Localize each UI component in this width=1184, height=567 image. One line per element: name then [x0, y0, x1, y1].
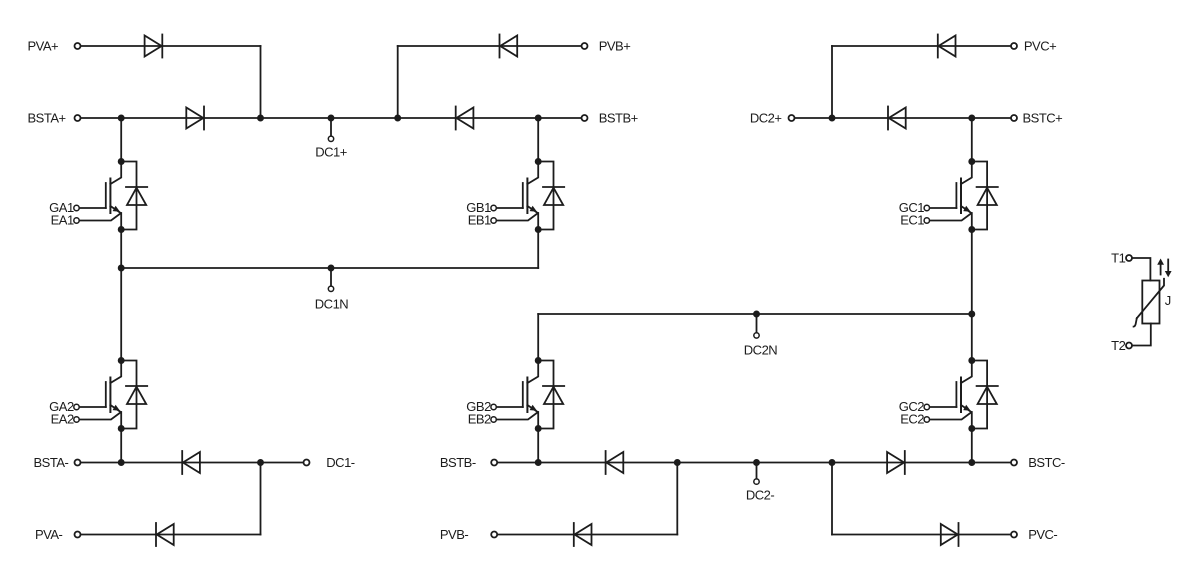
IGBT QC2 (gate GC2, emitter EC2) — [927, 361, 998, 429]
diode D-PVC- — [941, 523, 959, 546]
wire PVA- horizontal — [81, 534, 261, 536]
wire BSTA+/BSTB+ rail — [81, 117, 582, 119]
terminal BSTC+ — [1011, 115, 1017, 121]
svg-text:EC1: EC1 — [900, 213, 924, 228]
wire A leg GA2 to BSTA- — [120, 429, 122, 463]
junction QA1 emitter — [118, 226, 125, 233]
node circle DC2- — [754, 479, 759, 484]
wire B leg GB2 to BSTB- — [537, 429, 539, 463]
diode D-PVB+ — [500, 35, 518, 58]
svg-text:DC1N: DC1N — [315, 297, 349, 312]
junction QB1 emitter — [535, 226, 542, 233]
node circle emitter sense EA1 — [74, 218, 79, 223]
wire DC2N rail down to GB2 collector — [537, 314, 539, 361]
terminal BSTC- — [1011, 460, 1017, 466]
svg-text:BSTB-: BSTB- — [440, 455, 476, 470]
wire BSTA- to DC1- — [81, 462, 304, 464]
junction DC2N / C leg — [968, 311, 975, 318]
svg-text:DC2+: DC2+ — [750, 110, 782, 125]
wire PVC+ horizontal — [832, 45, 1011, 47]
junction DC2- tap — [753, 459, 760, 466]
node circle gate GB2 — [491, 404, 496, 409]
svg-text:BSTC-: BSTC- — [1028, 455, 1065, 470]
terminal BSTA- — [75, 460, 81, 466]
svg-text:BSTA-: BSTA- — [34, 455, 69, 470]
node circle emitter sense EA2 — [74, 417, 79, 422]
diode D-BSTC+ — [888, 107, 906, 130]
terminal PVC- — [1011, 532, 1017, 538]
wire corner up to BSTA- rail — [260, 463, 262, 535]
junction QB2 emitter — [535, 425, 542, 432]
node circle emitter sense EC1 — [924, 218, 929, 223]
junction BSTB- / B leg — [535, 459, 542, 466]
wire corner up to BSTB- rail — [676, 463, 678, 535]
wire PVC- horizontal — [832, 534, 1011, 536]
diode D-BSTA- — [182, 451, 200, 474]
diode D-PVA+ — [145, 35, 163, 58]
junction QB2 collector — [535, 357, 542, 364]
wire BSTB-/BSTC- rail — [497, 462, 1011, 464]
diode D-BSTB+ — [456, 107, 474, 130]
diode D-BSTB- — [606, 451, 624, 474]
svg-text:DC2-: DC2- — [746, 488, 775, 503]
wire C leg BSTC+ to GC1 — [971, 118, 973, 162]
node circle DC1+ — [328, 136, 333, 141]
wire PVB- horizontal — [497, 534, 677, 536]
wire DC2N rail — [538, 313, 972, 315]
diode D-PVC+ — [938, 35, 956, 58]
thermistor current arrows — [1157, 259, 1171, 278]
terminal DC1- — [304, 460, 310, 466]
wire corner down to BSTA+ rail — [260, 46, 262, 118]
thermistor J (temperature sensor T1/T2) — [1132, 258, 1164, 346]
svg-text:PVB-: PVB- — [440, 527, 469, 542]
node circle DC2N — [754, 333, 759, 338]
wire PVC+ corner down to DC2+ rail — [831, 46, 833, 118]
svg-text:BSTC+: BSTC+ — [1023, 110, 1063, 125]
terminal T1 — [1126, 255, 1132, 261]
svg-text:BSTB+: BSTB+ — [599, 110, 638, 125]
svg-text:EB1: EB1 — [468, 213, 491, 228]
junction PVC+ corner on DC2+ rail — [829, 115, 836, 122]
junction BSTA- / A leg — [118, 459, 125, 466]
IGBT QC1 (gate GC1, emitter EC1) — [927, 162, 998, 230]
svg-text:PVC+: PVC+ — [1024, 38, 1056, 53]
node circle DC1N — [328, 286, 333, 291]
node circle gate GC1 — [924, 205, 929, 210]
wire DC1N rail — [121, 267, 538, 269]
svg-text:EA1: EA1 — [51, 213, 74, 228]
junction DC1N / A leg — [118, 265, 125, 272]
junction DC1N tap — [328, 265, 335, 272]
junction QA2 emitter — [118, 425, 125, 432]
junction BSTA+ / A leg — [118, 115, 125, 122]
junction QC1 emitter — [968, 226, 975, 233]
junction QC2 emitter — [968, 425, 975, 432]
diode D-BSTA+ — [186, 107, 204, 130]
diode D-BSTC- — [887, 451, 905, 474]
svg-text:EC2: EC2 — [900, 412, 924, 427]
wire DC1N rail up to GB1 emitter — [537, 230, 539, 269]
wire B leg BSTB+ to GB1 — [537, 118, 539, 162]
wire PVB+ horizontal — [398, 45, 582, 47]
wire DC1+ stub — [330, 118, 332, 136]
wire A leg BSTA+ to GA1 — [120, 118, 122, 162]
terminal PVB- — [491, 532, 497, 538]
junction QA1 collector — [118, 158, 125, 165]
node circle gate GC2 — [924, 404, 929, 409]
svg-text:T1: T1 — [1111, 250, 1125, 265]
junction BSTB+ / B leg — [535, 115, 542, 122]
wire PVB+ corner down to BST+ rail — [397, 46, 399, 118]
IGBT QA2 (gate GA2, emitter EA2) — [77, 361, 148, 429]
svg-text:T2: T2 — [1111, 338, 1125, 353]
wire C leg GC2 to BSTC- — [971, 429, 973, 463]
svg-text:PVA-: PVA- — [35, 527, 63, 542]
terminal PVB+ — [582, 43, 588, 49]
svg-text:EB2: EB2 — [468, 412, 491, 427]
junction PVB+ corner on BST+ rail — [394, 115, 401, 122]
junction DC2N tap — [753, 311, 760, 318]
terminal DC2+ — [789, 115, 795, 121]
junction PVA- corner on BSTA- rail — [257, 459, 264, 466]
svg-text:PVC-: PVC- — [1028, 527, 1057, 542]
wire C leg GC1 to GC2 through DC2N — [971, 230, 973, 361]
junction BSTC- / C leg — [968, 459, 975, 466]
wire A leg GA1 to GA2 through DC1N — [120, 230, 122, 361]
junction DC1+ tap — [328, 115, 335, 122]
IGBT QB1 (gate GB1, emitter EB1) — [494, 162, 565, 230]
svg-text:EA2: EA2 — [51, 412, 74, 427]
svg-text:J: J — [1165, 293, 1171, 308]
terminal BSTB+ — [582, 115, 588, 121]
terminal PVC+ — [1011, 43, 1017, 49]
svg-text:DC1-: DC1- — [326, 455, 355, 470]
wire DC2N stub — [756, 314, 758, 333]
diode D-PVA- — [156, 523, 174, 546]
diode D-PVB- — [574, 523, 592, 546]
svg-text:DC1+: DC1+ — [315, 144, 347, 159]
junction PVA+ corner on BST+ rail — [257, 115, 264, 122]
junction PVC- corner on BST- rail — [829, 459, 836, 466]
node circle gate GB1 — [491, 205, 496, 210]
IGBT QA1 (gate GA1, emitter EA1) — [77, 162, 148, 230]
terminal BSTB- — [491, 460, 497, 466]
junction QC1 collector — [968, 158, 975, 165]
junction QB1 collector — [535, 158, 542, 165]
node circle emitter sense EB1 — [491, 218, 496, 223]
IGBT QB2 (gate GB2, emitter EB2) — [494, 361, 565, 429]
terminal T2 — [1126, 343, 1132, 349]
junction QC2 collector — [968, 357, 975, 364]
node circle emitter sense EC2 — [924, 417, 929, 422]
node circle gate GA2 — [74, 404, 79, 409]
terminal BSTA+ — [75, 115, 81, 121]
terminal PVA+ — [75, 43, 81, 49]
svg-text:DC2N: DC2N — [744, 342, 778, 357]
wire DC2+/BSTC+ rail — [795, 117, 1012, 119]
svg-text:PVA+: PVA+ — [28, 38, 59, 53]
svg-text:PVB+: PVB+ — [599, 38, 631, 53]
terminal PVA- — [75, 532, 81, 538]
node circle gate GA1 — [74, 205, 79, 210]
junction BSTC+ / C leg — [968, 115, 975, 122]
wire corner up to BSTC- rail — [831, 463, 833, 535]
node circle emitter sense EB2 — [491, 417, 496, 422]
junction PVB- corner on BST- rail — [674, 459, 681, 466]
junction QA2 collector — [118, 357, 125, 364]
wire DC1N stub — [330, 268, 332, 286]
wire DC2- stub — [756, 463, 758, 480]
wire PVA+ to corner — [81, 45, 261, 47]
svg-text:BSTA+: BSTA+ — [28, 110, 66, 125]
